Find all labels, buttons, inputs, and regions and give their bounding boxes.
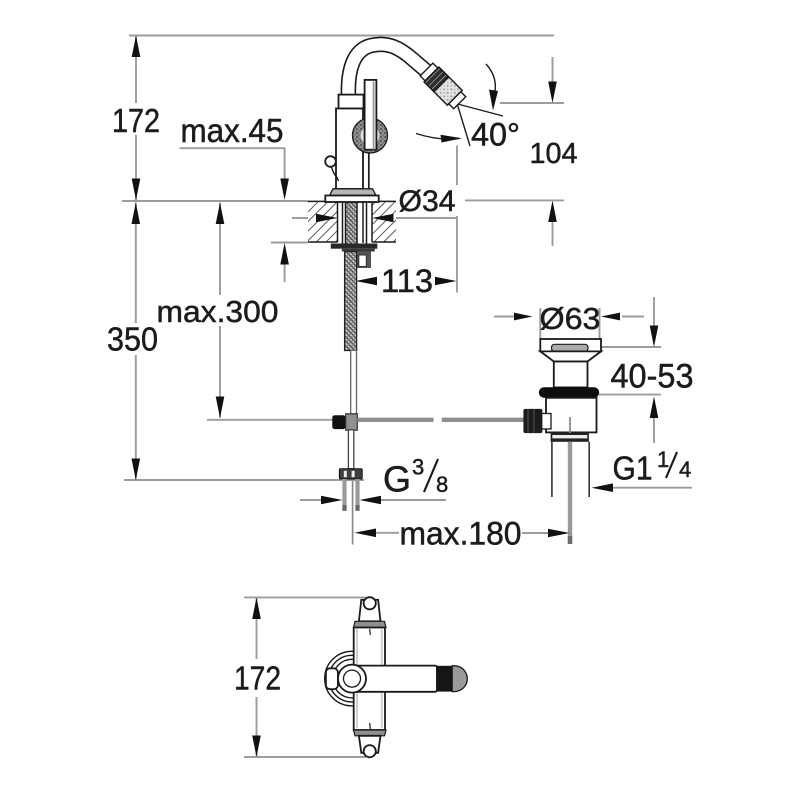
shallow angle line [450, 102, 503, 116]
diam34 left arrow [316, 214, 338, 223]
spout tip vertical extension line [456, 146, 458, 293]
bottom 172 bottom arrow [252, 736, 261, 758]
pop-up rod guide block [355, 252, 372, 269]
max.45 lower stub [284, 264, 286, 282]
G1 1/4 arrow [592, 483, 614, 492]
G1 1/4 leader [613, 487, 692, 489]
diam63 right arrow [601, 313, 620, 321]
350 bottom extension line [124, 479, 364, 481]
G3/8 leaders [300, 499, 322, 501]
G3/8 nut [339, 469, 362, 479]
40-53 top extension [601, 346, 661, 348]
172 bottom arrow [132, 179, 141, 201]
350 bottom arrow [132, 459, 141, 481]
104 arrow stubs [552, 57, 554, 82]
spout bottom block [359, 736, 381, 753]
104 bottom arrow [548, 201, 557, 223]
40-53 bottom arrow [650, 397, 659, 419]
lower arc leader [416, 134, 459, 140]
steep angle line [456, 100, 470, 146]
spout top block [359, 600, 381, 622]
side port neck [541, 414, 551, 430]
172 top arrow [132, 36, 141, 58]
lever handle [365, 80, 377, 150]
svg-text:40°: 40° [471, 117, 520, 153]
drain body bottom rim [551, 432, 589, 441]
bottom shoulder [354, 730, 387, 736]
body main cylinder [336, 109, 363, 190]
svg-text:3: 3 [412, 455, 424, 480]
drain flange [540, 339, 601, 351]
diam63 extension lines [539, 308, 541, 339]
diam34 dimension line [292, 217, 316, 219]
svg-text:Ø63: Ø63 [540, 301, 601, 336]
350 dimension line [135, 203, 137, 481]
deck outline edges [308, 201, 396, 242]
svg-text:1: 1 [657, 447, 669, 472]
top reference line [129, 35, 554, 37]
upper arc leader [486, 64, 495, 97]
junction block [346, 414, 358, 430]
deck top left extension [122, 200, 308, 202]
junction knob [332, 415, 345, 429]
max.180 left arrow [355, 529, 377, 538]
diam63 leaders [494, 316, 519, 318]
mounting washer [331, 244, 378, 249]
handle bar [351, 666, 437, 692]
G3/8 right arrow [360, 496, 382, 505]
40deg upper arc arrowhead [489, 90, 498, 111]
svg-text:max.180: max.180 [400, 516, 522, 552]
svg-text:G: G [383, 459, 411, 500]
drain plug cap [552, 344, 589, 351]
svg-text:G1: G1 [613, 450, 653, 487]
G3/8 pipe tails [342, 479, 346, 511]
113 right arrow [435, 277, 457, 286]
handle boss [338, 665, 366, 693]
113 left arrow [356, 277, 378, 286]
diam34 right arrow [372, 214, 394, 223]
knurled connector [523, 409, 542, 433]
vertical rod upper [351, 350, 357, 415]
shank tube white fill [343, 202, 367, 244]
svg-text:8: 8 [436, 472, 448, 497]
escutcheon rings [325, 651, 380, 706]
350 top arrow [132, 203, 141, 225]
deck hatch right block [372, 201, 396, 242]
escutcheon collar [330, 189, 377, 196]
vertical pull rod [569, 417, 571, 433]
drain body [546, 398, 597, 433]
mounting nut [342, 249, 375, 252]
pivot dome [353, 118, 388, 153]
neck cylinder [554, 362, 588, 388]
svg-text:104: 104 [530, 138, 578, 170]
bottom view 172 extension lines [244, 596, 366, 598]
104 top arrow [548, 82, 557, 104]
spout tube [348, 44, 441, 96]
172 dimension line (side view) [135, 36, 137, 201]
svg-text:172: 172 [112, 102, 160, 139]
bottom 172 top arrow [252, 598, 261, 620]
diam63 left arrow [514, 313, 533, 321]
max.180 leaders [376, 532, 399, 534]
pop-up knob [325, 156, 336, 167]
handle end cap [452, 666, 467, 692]
svg-text:113: 113 [381, 263, 433, 299]
40deg lower arc arrowhead [441, 135, 463, 143]
left tab [326, 668, 338, 689]
supply hose [345, 252, 357, 351]
body upper section [339, 95, 364, 109]
svg-text:350: 350 [107, 321, 158, 358]
max.45 top arrow [280, 179, 289, 201]
top shoulder [354, 621, 387, 627]
max.45 bottom arrow [280, 243, 289, 265]
base plate [325, 196, 378, 203]
aerator tip [419, 62, 467, 110]
O-ring [539, 387, 599, 398]
svg-text:max.300: max.300 [157, 294, 279, 329]
max.45 drop line [284, 148, 286, 179]
G3/8 left arrow [321, 496, 343, 505]
40-53 top arrow [650, 326, 659, 348]
svg-text:4: 4 [679, 457, 691, 482]
max.300 top arrow [216, 203, 225, 225]
horizontal rod segment A [357, 418, 433, 422]
shank braid texture [346, 202, 358, 244]
max.300 dimension line [219, 203, 221, 419]
tailpipe walls [551, 442, 553, 497]
deck hatch left block [308, 201, 338, 242]
deck bottom left stub [271, 242, 308, 244]
pop-up rod extension line [207, 419, 333, 421]
vertical tube below junction [348, 430, 353, 469]
horizontal rod segment B [442, 418, 524, 422]
bottom view 172 dimension line [256, 597, 258, 757]
max.45 leader underline [180, 147, 286, 149]
svg-text:max.45: max.45 [181, 112, 284, 149]
shank wall lines [343, 202, 367, 244]
deck top right extension [465, 199, 564, 201]
svg-text:40-53: 40-53 [611, 358, 694, 396]
svg-text:Ø34: Ø34 [399, 185, 456, 218]
spout bottom circle [364, 745, 376, 757]
center pull rod [352, 481, 354, 545]
spout top circle [364, 597, 376, 609]
40-53 bottom extension [599, 394, 661, 396]
max.300 bottom arrow [216, 397, 225, 419]
svg-text:172: 172 [234, 660, 281, 697]
main body tube [354, 628, 385, 731]
max.180 right arrow [548, 529, 570, 538]
flange neck taper [540, 351, 601, 361]
104 top extension line [500, 102, 564, 104]
handle dark band [436, 666, 452, 692]
